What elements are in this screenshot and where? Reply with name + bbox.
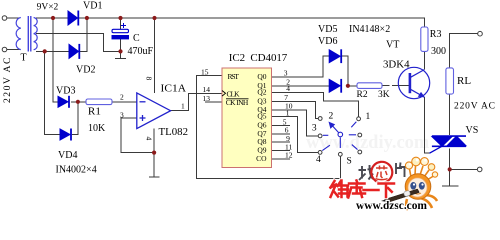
svg-text:CK INH: CK INH [226,98,249,107]
wire: top rail from VD1 cathode to R3 [79,18,425,27]
wire: A tap vertical down to VD3 [53,18,58,102]
svg-text:CLK: CLK [227,89,241,98]
rotary switch center rotor [338,132,343,137]
wire: RST pin15 lead [197,75,223,77]
op-amp U1 IC1A [137,93,171,129]
wire: Q9 stub pin11 [272,150,291,152]
svg-text:14: 14 [203,85,211,94]
svg-text:4: 4 [145,137,154,141]
svg-text:1: 1 [366,112,371,122]
terminal: output bottom [477,167,482,172]
wire: Q3 to switch contact 2 [272,101,319,118]
resistor R2 [357,83,382,89]
svg-text:RST: RST [228,72,240,81]
svg-text:2: 2 [120,93,124,102]
svg-text:TL082: TL082 [159,126,189,138]
ground bar below op-amp [149,176,160,178]
svg-text:C: C [133,33,140,44]
svg-text:2: 2 [329,112,334,122]
wire: op-amp V+ pin8 from rail [154,18,156,93]
svg-text:3: 3 [120,111,124,120]
svg-text:S: S [347,157,352,167]
diode VD1 [68,11,78,26]
svg-text:3: 3 [312,124,317,134]
IC2 CD4017 body [222,68,272,168]
wire: VD5 cathode down to junction [342,56,348,86]
svg-text:Q8: Q8 [257,137,266,146]
IC2 right pin numbers [283,69,293,160]
svg-text:220V AC: 220V AC [454,102,495,112]
svg-text:VD4: VD4 [58,150,77,161]
mascot pen [385,189,420,203]
wire: RL bottom to triac top [449,94,451,135]
wire: Q0 to VD5 anode [272,56,330,77]
svg-text:10K: 10K [88,123,106,134]
wire: triac bottom to output bottom terminal [450,149,478,170]
wire: capacitor bottom lead to ground [120,39,122,59]
rotary switch S contacts [318,117,361,157]
diode VD5 [329,49,341,63]
svg-text:13: 13 [203,94,211,103]
wire: VD4 cathode up to VD3 junction [72,102,78,135]
svg-text:7: 7 [284,93,288,102]
svg-text:IC1A: IC1A [161,83,187,94]
diode VD3 [58,96,69,108]
wire: VT emitter down to triac gate [424,97,429,153]
IC2 Q labels [256,72,267,163]
capacitor C bottom plate [112,36,129,39]
svg-text:IC2 CD4017: IC2 CD4017 [229,52,288,64]
mascot antenna bulbs [405,162,412,169]
svg-text:IN4002×4: IN4002×4 [56,165,97,176]
svg-text:VD3: VD3 [56,86,75,97]
svg-text:VD1: VD1 [83,1,102,12]
svg-text:15: 15 [201,68,209,77]
wire: Q2 to switch contact 1 [272,93,359,118]
svg-text:VT: VT [386,40,399,51]
wire: R1 to op-amp inverting input [112,101,137,103]
wire: CO stub pin12 [272,158,291,160]
wire: Q5 to switch contact 4 [272,117,319,153]
svg-text:9: 9 [286,134,290,143]
logo text 维库一下 (stroke approximation) [331,181,395,198]
svg-text:1: 1 [286,108,290,117]
logo white glow backdrop [353,158,413,186]
wire: Q8 stub pin9 [272,141,291,143]
wire: B tap vertical down to VD4 [45,51,60,134]
svg-text:12: 12 [285,151,293,160]
transistor VT 3DK4 [398,67,429,98]
diode VD4 [60,129,71,141]
svg-text:300: 300 [431,46,446,57]
svg-text:T: T [21,53,27,64]
capacitor C top plate [112,29,129,32]
wire: Q6 stub pin5 [272,125,291,127]
mascot eyes [410,182,416,190]
svg-text:470uF: 470uF [128,46,154,57]
logo decorative glyph 片 [396,163,406,178]
wire: op-amp output to CLK [171,93,222,110]
terminal: AC input top [2,16,7,21]
diode VD6 [329,79,341,93]
svg-text:Q5: Q5 [257,112,266,121]
svg-text:Q2: Q2 [257,88,266,97]
svg-text:CO: CO [256,154,267,163]
wire: secondary center tap to cap bottom [36,34,121,52]
svg-text:Q0: Q0 [257,72,266,81]
svg-text:3K: 3K [378,90,390,100]
svg-text:VD6: VD6 [318,36,337,47]
logo red circle around 芯 [370,161,393,184]
wire: triac bottom to ground [449,169,451,185]
ground bar bottom right [442,185,459,187]
svg-text:VS: VS [466,125,479,136]
wire: RST to switch common bottom bus [197,76,341,179]
diode VD2 [69,44,79,59]
svg-text:R1: R1 [88,106,101,117]
ground bar below capacitor [115,58,126,60]
transformer T primary coil [16,18,21,50]
svg-text:R2: R2 [357,90,368,100]
svg-text:RL: RL [457,75,471,87]
logo decorative glyph 找 [359,165,374,180]
svg-text:www.dzdiy.com: www.dzdiy.com [306,133,430,153]
wire: R2 to VT base [382,85,390,87]
capacitor plus sign [121,23,126,28]
resistor R1 [86,99,112,105]
wire: op-amp V- pin4 to ground [153,129,155,177]
svg-text:www.dzsc.com: www.dzsc.com [356,200,427,212]
triac VS [430,136,467,153]
transformer T secondary coil [34,18,38,50]
svg-text:IN4148×2: IN4148×2 [349,24,390,35]
terminal: output top [478,31,483,36]
wire: CK INH stub pin13 [205,101,222,103]
wire: Q4 to switch contact 3 [272,110,319,136]
logo glyph 芯 (red) [376,166,388,180]
mascot antenna stalks [410,166,434,180]
wire: secondary top A line to VD1 [36,17,68,19]
wire: AC input top lead [7,17,20,19]
wire: op-amp noninverting input to ground bus [121,118,154,153]
wire: secondary bottom B line to VD2 [36,50,69,52]
wire: Q7 stub pin6 [272,133,291,135]
wire: Q1 to VD6 anode [272,85,330,87]
wire: VD6 junction to R2 [348,85,357,87]
wire: output top terminal to RL [450,34,478,68]
svg-text:4: 4 [286,84,290,93]
svg-text:VD5: VD5 [318,24,337,35]
mascot body/legs [381,157,438,210]
resistor RL [446,68,454,94]
IC2 CK INH overline [226,98,249,100]
svg-text:220V AC: 220V AC [2,58,13,104]
svg-text:1: 1 [181,102,185,111]
IC2 clock arrow [222,91,226,97]
resistor R3 [421,27,428,51]
wire: capacitor top lead [120,18,122,29]
svg-text:9V×2: 9V×2 [37,3,59,13]
svg-text:Q3: Q3 [257,96,266,105]
rotary switch ticks [322,122,357,151]
wire: AC input bottom lead [7,49,20,51]
rotary switch rotor arrow [329,123,338,133]
mascot head [405,174,431,200]
svg-text:8: 8 [145,77,154,81]
wire: R3 bottom to VT collector [423,51,425,69]
svg-text:R3: R3 [430,29,442,40]
svg-text:3: 3 [284,69,288,78]
terminal: AC input bottom [2,47,7,52]
svg-text:VD2: VD2 [76,65,95,76]
svg-text:3DK4: 3DK4 [383,60,410,71]
wire: VD2 cathode up to rail [80,18,87,51]
transformer core [27,16,29,52]
svg-text:4: 4 [316,155,321,165]
wire: VD3 cathode to junction [71,101,86,103]
